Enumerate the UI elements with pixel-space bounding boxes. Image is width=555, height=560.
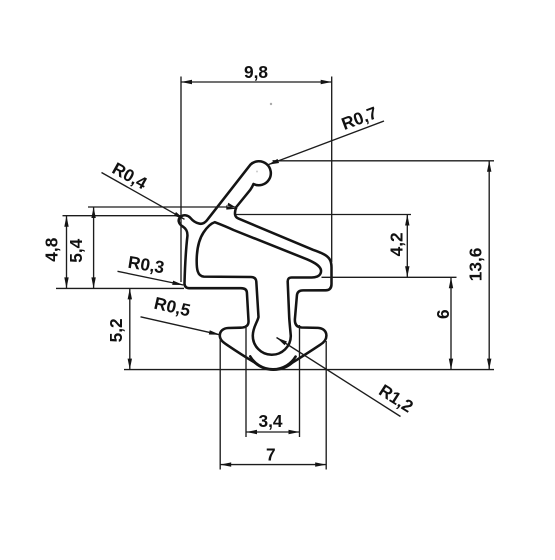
foot bulb bottom arc (full) (250, 356, 295, 369)
leader R0,7 (268, 121, 384, 165)
dimension 5,2 (129, 288, 131, 369)
dimension 3,4 (246, 325, 300, 437)
svg-text:4,8: 4,8 (42, 237, 62, 261)
svg-text:13,6: 13,6 (466, 248, 486, 282)
svg-text:9,8: 9,8 (244, 62, 268, 82)
dimension 5,4 (88, 207, 237, 288)
seal profile outer outline (179, 161, 332, 369)
dimension 13,6 (124, 161, 494, 370)
leader R1,2 (277, 338, 401, 417)
faint specks (270, 103, 272, 105)
dimension 6 (450, 277, 452, 369)
inner cavity outline (197, 222, 321, 355)
dimension 9,8 (181, 77, 332, 283)
leader R0,3 (118, 271, 184, 285)
svg-text:7: 7 (266, 444, 276, 464)
dimension 4,2 (236, 215, 457, 278)
leader R0,5 (141, 317, 221, 335)
svg-text:6: 6 (433, 309, 453, 319)
svg-text:3,4: 3,4 (258, 411, 282, 431)
svg-text:5,2: 5,2 (106, 318, 126, 342)
svg-text:4,2: 4,2 (387, 232, 407, 256)
dimension 7 (220, 334, 326, 470)
leader R0,4 (102, 173, 185, 220)
svg-text:5,4: 5,4 (66, 238, 86, 262)
dimension 4,8 (56, 216, 184, 289)
